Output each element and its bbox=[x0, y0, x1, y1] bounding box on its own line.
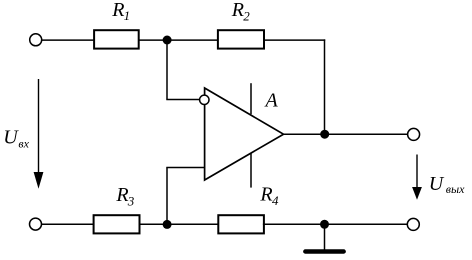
wire corner down to output node bbox=[324, 39, 326, 134]
wire R4 to bottom-right terminal bbox=[263, 223, 408, 225]
op-amp inverting input bubble bbox=[200, 95, 209, 104]
resistor R2 bbox=[218, 30, 264, 48]
terminal input top-left bbox=[30, 34, 42, 46]
svg-text:R: R bbox=[115, 184, 128, 206]
terminal input bottom-left bbox=[30, 218, 42, 230]
svg-text:U: U bbox=[429, 173, 445, 195]
wire R3 to R4 bbox=[139, 223, 219, 225]
svg-text:вх: вх bbox=[18, 136, 29, 150]
arrow U input voltage bbox=[38, 79, 40, 174]
node junction R1/R2/feedback bbox=[163, 36, 172, 45]
svg-text:A: A bbox=[264, 89, 279, 111]
ground stem bbox=[324, 224, 326, 250]
op-amp U1 triangle bbox=[205, 88, 284, 180]
resistor R4 bbox=[218, 215, 264, 233]
op-amp power pin lower bbox=[250, 153, 252, 188]
node junction R3/R4/input wire bbox=[163, 220, 172, 229]
wire feedback to inverting input bbox=[166, 99, 200, 101]
wire feedback vertical bbox=[166, 40, 168, 99]
resistor R1 bbox=[94, 30, 139, 48]
arrowhead output bbox=[412, 187, 422, 200]
arrow U output voltage bbox=[416, 155, 418, 189]
arrowhead input bbox=[34, 172, 44, 189]
wire input to R1 bbox=[42, 39, 94, 41]
wire lower input vertical bbox=[166, 168, 168, 225]
wire R2 to corner bbox=[264, 39, 325, 41]
node output junction bbox=[320, 130, 329, 139]
svg-text:R: R bbox=[111, 0, 124, 21]
wire lower input horizontal bbox=[166, 167, 204, 169]
svg-text:R: R bbox=[231, 0, 244, 21]
svg-text:U: U bbox=[3, 127, 19, 149]
wire R1 to R2 bbox=[139, 39, 218, 41]
node junction ground bbox=[320, 220, 329, 229]
op-amp power pin upper bbox=[250, 83, 252, 114]
svg-text:3: 3 bbox=[127, 193, 135, 208]
terminal output top-right bbox=[408, 128, 420, 140]
svg-text:R: R bbox=[259, 184, 272, 206]
resistor R3 bbox=[94, 215, 140, 233]
svg-text:4: 4 bbox=[272, 193, 279, 208]
ground bar bbox=[305, 249, 343, 253]
svg-text:1: 1 bbox=[124, 8, 131, 23]
wire bottom-left to R3 bbox=[42, 223, 94, 225]
svg-text:2: 2 bbox=[243, 8, 250, 23]
wire op-amp output bbox=[284, 133, 408, 135]
svg-text:вых: вых bbox=[446, 182, 465, 196]
terminal output bottom-right bbox=[407, 218, 419, 230]
